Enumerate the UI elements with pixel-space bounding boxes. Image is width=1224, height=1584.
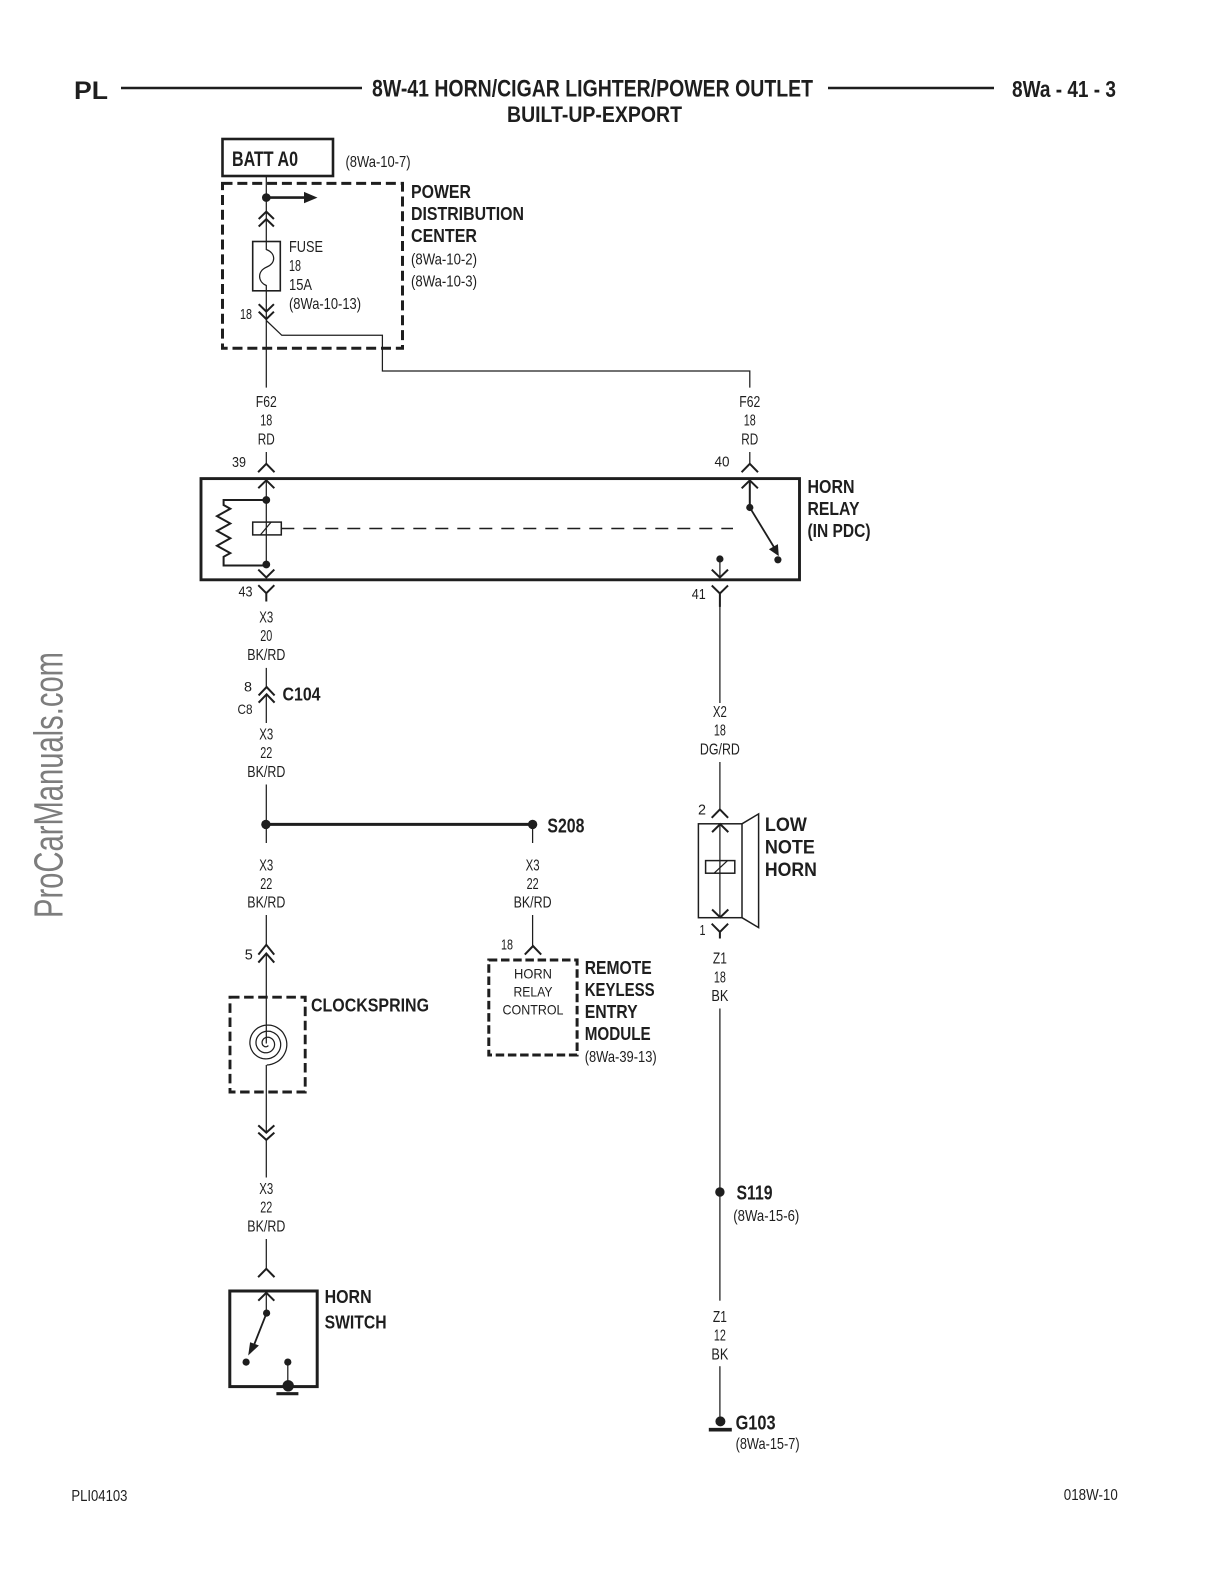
wire into RKE pin 18 [532, 915, 534, 946]
header title line 2 [507, 102, 682, 127]
header left rule [121, 87, 362, 90]
svg-text:40: 40 [715, 454, 730, 471]
svg-text:PL: PL [74, 77, 108, 105]
wire down to G103 [719, 1366, 721, 1416]
pin 1 label [700, 922, 706, 939]
junction node at battery feed [262, 193, 271, 202]
svg-text:NOTE: NOTE [765, 838, 815, 859]
svg-text:18: 18 [744, 413, 756, 430]
header page number 8Wa - 41 - 3 [1012, 76, 1116, 102]
svg-text:18: 18 [240, 306, 252, 323]
junction node coil bottom [262, 561, 270, 569]
connector fork at horn pin 2 [712, 809, 727, 817]
svg-text:(8Wa-39-13): (8Wa-39-13) [585, 1049, 657, 1066]
ground bar below horn switch [276, 1392, 298, 1395]
switch pivot node [263, 1310, 270, 1317]
wire label F62 18 RD (left) [256, 394, 277, 448]
connector fork at horn pin 1 [712, 924, 727, 937]
watermark ProCarManuals.com [26, 652, 72, 918]
RKE module name label [585, 958, 657, 1066]
pin 41 exit chevron inside relay [713, 570, 728, 577]
svg-text:(8Wa-10-3): (8Wa-10-3) [411, 274, 477, 291]
low note horn name label [765, 815, 817, 881]
svg-text:18: 18 [260, 413, 272, 430]
wire out of clockspring [265, 1065, 267, 1133]
svg-text:12: 12 [714, 1328, 726, 1345]
svg-text:CONTROL: CONTROL [503, 1002, 564, 1018]
svg-text:43: 43 [239, 584, 253, 601]
wire C104 down [265, 694, 267, 723]
svg-text:RD: RD [258, 431, 275, 448]
pin 40 entry chevron inside relay [742, 480, 757, 487]
svg-text:X3: X3 [259, 857, 273, 874]
ground G103 node [715, 1416, 725, 1426]
svg-text:2: 2 [698, 801, 706, 818]
wire to switch pivot [265, 1293, 267, 1313]
relay coil [253, 522, 282, 535]
G103 name label [736, 1413, 776, 1435]
svg-text:BK: BK [711, 1346, 728, 1363]
horn switch name label [325, 1287, 387, 1333]
svg-text:41: 41 [692, 586, 706, 603]
fuse 18 15A [253, 242, 281, 292]
horn relay box [201, 479, 800, 580]
pin 39 entry chevron inside relay [259, 480, 274, 487]
svg-text:G103: G103 [736, 1413, 776, 1435]
junction node coil top [262, 496, 270, 504]
svg-text:POWER: POWER [411, 182, 471, 202]
clockspring spiral [250, 1025, 287, 1065]
header text PL [74, 77, 108, 105]
switch pivot node [746, 504, 753, 511]
svg-text:5: 5 [245, 947, 253, 964]
svg-text:KEYLESS: KEYLESS [585, 980, 655, 1000]
svg-text:C8: C8 [238, 701, 253, 717]
svg-text:X3: X3 [259, 609, 273, 626]
G103 reference label [736, 1436, 800, 1453]
svg-text:BK/RD: BK/RD [247, 1218, 285, 1235]
reference label (8Wa-10-7) [346, 154, 411, 171]
svg-text:RELAY: RELAY [514, 984, 554, 1000]
svg-text:22: 22 [260, 1200, 272, 1217]
S119 name label [737, 1182, 773, 1204]
svg-text:X3: X3 [526, 857, 540, 874]
low note horn box [698, 824, 742, 918]
svg-text:S208: S208 [547, 816, 584, 838]
svg-text:18: 18 [289, 258, 301, 275]
wire label F62 18 RD (right) [739, 394, 760, 448]
svg-text:8W-41 HORN/CIGAR LIGHTER/POWER: 8W-41 HORN/CIGAR LIGHTER/POWER OUTLET [372, 76, 813, 103]
horn speaker flare [742, 814, 759, 928]
wire label X3 22 BK/RD above horn switch [247, 1181, 285, 1235]
pin 39 label [232, 454, 246, 471]
connector fork below pin 41 [713, 586, 728, 606]
wire into horn pin 2 [719, 762, 721, 809]
splice node S208 left [261, 820, 270, 829]
svg-text:BATT A0: BATT A0 [232, 148, 298, 171]
svg-text:8Wa - 41 - 3: 8Wa - 41 - 3 [1012, 76, 1116, 102]
fuse value labels FUSE 18 15A (8Wa-10-13) [289, 239, 361, 313]
svg-text:F62: F62 [739, 394, 760, 411]
header title line 1 [372, 76, 813, 103]
wire to S208 junction [265, 785, 267, 844]
footer sheet number 018W-10 [1064, 1487, 1118, 1504]
S119 reference label [733, 1208, 799, 1225]
ground node on box edge [283, 1380, 294, 1391]
svg-text:DG/RD: DG/RD [700, 741, 740, 758]
switch contact node left [243, 1359, 250, 1366]
battery feed box BATT A0 [223, 139, 334, 176]
svg-text:(8Wa-15-7): (8Wa-15-7) [736, 1436, 800, 1453]
svg-text:X3: X3 [259, 727, 273, 744]
pin 5 label [245, 947, 253, 964]
relay actuation dashed line [281, 528, 733, 530]
splice bus wire to S208 [266, 823, 533, 826]
svg-text:LOW: LOW [765, 815, 807, 836]
connector fork below pin 43 [259, 586, 274, 601]
wire into pin 40 connector [749, 452, 751, 464]
svg-text:8: 8 [244, 679, 252, 695]
wire pin 40 to switch pivot [749, 480, 751, 507]
svg-text:SWITCH: SWITCH [325, 1313, 387, 1333]
wire label X3 22 BK/RD below S208 left [247, 857, 285, 911]
switch contact node right [284, 1359, 291, 1366]
pin 40 label [715, 454, 730, 471]
splice node S208 [528, 820, 537, 829]
remote keyless entry module dashed box [489, 960, 577, 1055]
svg-text:39: 39 [232, 454, 246, 471]
svg-text:HORN: HORN [514, 966, 552, 982]
arrow to other circuits [266, 192, 317, 203]
svg-text:HORN: HORN [808, 477, 855, 497]
svg-text:Z1: Z1 [713, 1309, 727, 1326]
pin 18 label at RKE [501, 937, 513, 954]
wire into pin 39 connector [265, 452, 267, 464]
pin 41 contact node [716, 555, 723, 562]
svg-text:ENTRY: ENTRY [585, 1002, 638, 1022]
C104 name label [283, 685, 321, 705]
horn switch arm with arrowhead [248, 1313, 266, 1355]
svg-text:(IN PDC): (IN PDC) [808, 521, 871, 541]
svg-text:PLI04103: PLI04103 [71, 1488, 127, 1505]
clockspring dashed box [230, 997, 305, 1092]
wire label X3 20 BK/RD below pin 43 [247, 609, 285, 663]
wire relay pin 41 down [719, 606, 721, 703]
svg-text:X3: X3 [259, 1181, 273, 1198]
horn switch box [230, 1291, 317, 1387]
svg-text:MODULE: MODULE [585, 1024, 651, 1044]
svg-text:15A: 15A [289, 277, 312, 294]
svg-text:Z1: Z1 [713, 951, 727, 968]
svg-text:22: 22 [260, 876, 272, 893]
svg-text:(8Wa-10-13): (8Wa-10-13) [289, 296, 361, 313]
C104 pin C8 label [238, 701, 253, 717]
remote keyless entry module wiring: wire from S208 down [532, 824, 534, 843]
wire label X3 22 BK/RD above S208 [247, 727, 285, 781]
relay switch arm with arrowhead [750, 508, 779, 557]
wire to C104 [265, 668, 267, 687]
svg-text:ProCarManuals.com: ProCarManuals.com [26, 652, 72, 918]
svg-text:DISTRIBUTION: DISTRIBUTION [411, 204, 524, 224]
horn relay control label inside RKE [503, 966, 564, 1018]
power distribution center dashed box [223, 183, 403, 348]
svg-text:BK: BK [711, 988, 728, 1005]
switch throw contact node [774, 556, 781, 563]
wire label Z1 18 BK [711, 951, 728, 1005]
entry chevron inside horn [713, 824, 728, 831]
connector fork at pin 39 [259, 464, 274, 472]
svg-text:RELAY: RELAY [808, 499, 860, 519]
wire pin 39 to coil [265, 480, 267, 564]
wire label X2 18 DG/RD [700, 704, 740, 758]
connector fork and chevron pin 5 [259, 945, 274, 962]
S208 name label [547, 816, 584, 838]
wire pin 41 contact to box edge [719, 559, 721, 578]
svg-text:HORN: HORN [765, 860, 817, 881]
svg-text:(8Wa-15-6): (8Wa-15-6) [733, 1208, 799, 1225]
pin 43 exit chevron inside relay [259, 570, 274, 577]
wire label X3 22 BK/RD at RKE [514, 857, 552, 911]
wire down to label block [265, 1140, 267, 1178]
svg-text:(8Wa-10-2): (8Wa-10-2) [411, 252, 477, 269]
wire branch fuse to relay pin 40 [266, 321, 750, 388]
svg-text:1: 1 [700, 922, 706, 939]
svg-text:18: 18 [714, 969, 726, 986]
wire into clockspring [265, 954, 267, 1044]
svg-text:RD: RD [741, 431, 758, 448]
svg-text:F62: F62 [256, 394, 277, 411]
wire down to clockspring connector [265, 915, 267, 946]
svg-text:C104: C104 [283, 685, 321, 705]
svg-text:BK/RD: BK/RD [514, 895, 552, 912]
entry chevron inside horn switch [259, 1293, 274, 1300]
connector double chevron below clockspring [259, 1126, 274, 1140]
svg-text:BK/RD: BK/RD [247, 895, 285, 912]
connector fork at pin 40 [742, 464, 757, 472]
wire down to S119 [719, 1009, 721, 1193]
svg-text:S119: S119 [737, 1182, 773, 1204]
svg-text:18: 18 [714, 723, 726, 740]
svg-text:X2: X2 [713, 704, 727, 721]
connector C104 fork and chevron [259, 687, 274, 702]
connector double chevron above fuse [259, 212, 273, 226]
svg-text:BUILT-UP-EXPORT: BUILT-UP-EXPORT [507, 102, 682, 127]
wire into horn switch connector [265, 1239, 267, 1269]
pin 18 label at fuse output [240, 306, 252, 323]
svg-text:REMOTE: REMOTE [585, 958, 652, 978]
connector fork above horn switch [259, 1269, 274, 1277]
horn coil [706, 861, 735, 874]
svg-text:018W-10: 018W-10 [1064, 1487, 1118, 1504]
wire S119 down [719, 1192, 721, 1301]
svg-text:22: 22 [527, 876, 539, 893]
svg-text:BK/RD: BK/RD [247, 647, 285, 664]
ground G103 bar [709, 1428, 732, 1432]
svg-text:FUSE: FUSE [289, 239, 323, 256]
C104 pin 8 label [244, 679, 252, 695]
pin 2 label [698, 801, 706, 818]
clockspring name label [311, 996, 429, 1016]
footer document number PLI04103 [71, 1488, 127, 1505]
pin 43 label [239, 584, 253, 601]
header right rule [828, 87, 994, 90]
svg-text:HORN: HORN [325, 1287, 372, 1307]
svg-text:18: 18 [501, 937, 513, 954]
splice node S119 [715, 1187, 724, 1196]
svg-text:20: 20 [260, 628, 272, 645]
wire fuse to relay pin 39 [265, 291, 267, 388]
connector fork at RKE pin 18 [526, 946, 541, 954]
svg-text:22: 22 [260, 745, 272, 762]
svg-text:(8Wa-10-7): (8Wa-10-7) [346, 154, 411, 171]
pin 41 label [692, 586, 706, 603]
PDC name label [411, 182, 524, 291]
svg-text:BK/RD: BK/RD [247, 764, 285, 781]
wire label Z1 12 BK [711, 1309, 728, 1363]
wire contact to ground node [287, 1362, 289, 1386]
wire BATT A0 down into PDC [265, 176, 267, 242]
exit chevron inside horn [713, 910, 728, 917]
relay name label HORN RELAY (IN PDC) [808, 477, 871, 541]
connector double chevron below fuse [259, 305, 273, 319]
wire through horn [719, 824, 721, 917]
svg-text:CENTER: CENTER [411, 226, 477, 246]
svg-text:CLOCKSPRING: CLOCKSPRING [311, 996, 429, 1016]
relay suppression resistor [217, 500, 266, 566]
